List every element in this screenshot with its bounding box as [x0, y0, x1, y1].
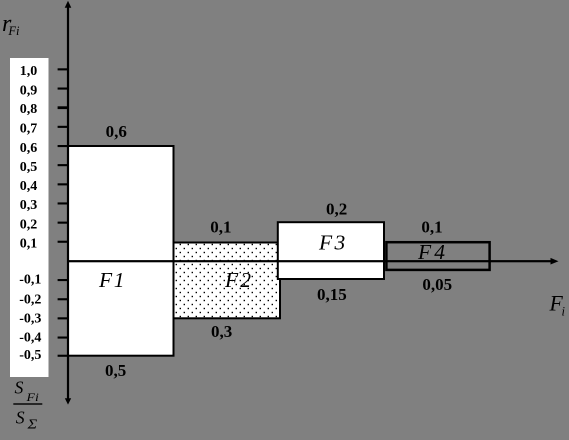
- bar F3: [278, 222, 384, 279]
- svg-text:Fi: Fi: [7, 24, 20, 38]
- svg-text:0,4: 0,4: [20, 179, 38, 194]
- svg-text:-0,2: -0,2: [19, 292, 41, 307]
- svg-text:4: 4: [434, 240, 445, 264]
- svg-text:0,3: 0,3: [20, 198, 38, 213]
- x-axis arrowhead: [551, 258, 559, 265]
- tick 0.9: [58, 88, 67, 90]
- svg-text:-0,4: -0,4: [19, 331, 41, 346]
- svg-text:F: F: [417, 240, 432, 264]
- tick -0.4: [58, 337, 67, 339]
- y-axis: [67, 6, 69, 400]
- tick 0.1: [58, 241, 67, 243]
- svg-text:0,1: 0,1: [20, 237, 38, 252]
- svg-text:0,8: 0,8: [20, 102, 38, 117]
- tick 1.0: [58, 68, 67, 70]
- tick -0.2: [58, 298, 67, 300]
- svg-text:Σ: Σ: [26, 418, 38, 433]
- tick 0.3: [58, 202, 67, 204]
- svg-text:0,6: 0,6: [20, 141, 38, 156]
- svg-text:0,9: 0,9: [20, 83, 38, 98]
- svg-text:3: 3: [334, 230, 346, 254]
- svg-text:0,05: 0,05: [422, 275, 452, 294]
- svg-text:-0,1: -0,1: [19, 273, 41, 288]
- svg-text:0,1: 0,1: [210, 217, 231, 236]
- svg-text:0,5: 0,5: [20, 160, 38, 175]
- svg-text:F: F: [98, 268, 113, 292]
- tick -0.1: [58, 279, 67, 281]
- y-axis top arrowhead: [65, 1, 72, 8]
- svg-text:-0,3: -0,3: [19, 312, 41, 327]
- bar F4: [386, 242, 489, 270]
- tick 0.2: [58, 222, 67, 224]
- tick 0.5: [58, 164, 67, 166]
- y-axis bottom arrowhead: [65, 398, 71, 404]
- tick -0.3: [58, 317, 67, 319]
- svg-text:2: 2: [240, 268, 251, 292]
- y-axis label box: [10, 58, 49, 377]
- x-axis: [67, 260, 552, 262]
- bar F1: [68, 146, 174, 356]
- tick -0.5: [58, 355, 67, 357]
- svg-text:i: i: [562, 305, 566, 319]
- tick 0.7: [58, 126, 67, 128]
- svg-text:1,0: 1,0: [20, 64, 38, 79]
- svg-text:S: S: [15, 377, 24, 397]
- svg-text:0,6: 0,6: [106, 122, 127, 141]
- bar F2: [174, 243, 281, 319]
- svg-text:0,7: 0,7: [20, 122, 38, 137]
- tick 0.6: [58, 145, 67, 147]
- svg-text:F: F: [318, 230, 333, 254]
- tick 0.4: [58, 183, 67, 185]
- svg-text:1: 1: [114, 268, 125, 292]
- svg-text:0,2: 0,2: [20, 217, 38, 232]
- svg-text:0,3: 0,3: [211, 322, 232, 341]
- tick 0.8: [58, 106, 67, 109]
- svg-text:0,15: 0,15: [317, 285, 347, 304]
- svg-text:0,2: 0,2: [326, 199, 347, 218]
- fraction bar: [13, 403, 42, 404]
- svg-text:0,1: 0,1: [421, 217, 442, 236]
- svg-text:Fi: Fi: [25, 390, 38, 404]
- svg-text:0,5: 0,5: [105, 361, 126, 380]
- svg-text:S: S: [16, 408, 25, 428]
- svg-text:-0,5: -0,5: [19, 348, 41, 363]
- svg-text:F: F: [224, 268, 239, 292]
